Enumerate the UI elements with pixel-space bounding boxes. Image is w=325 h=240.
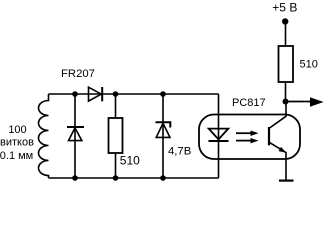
svg-text:510: 510 [120,154,140,168]
resistor R1 510 [109,118,123,153]
wire branch VD1 vertical [162,94,164,178]
label 100 витков 0.1 мм [0,124,34,162]
light arrow upper [236,132,251,134]
zener VD1 4,7В [156,122,171,137]
output arrow [310,97,324,107]
node top R1 [113,91,119,97]
node bottom VD1 [160,175,166,181]
wire top rail [49,93,219,95]
node collector junction [283,99,289,105]
node bottom D2 [72,175,78,181]
phototransistor Q1 base bar [268,127,270,145]
diode FR207 [89,87,103,101]
wire branch D2 vertical [74,94,76,178]
wire +5V to R2 [285,22,287,47]
Q1 emitter [269,142,286,180]
wire bottom rail [49,177,219,179]
svg-text:4,7В: 4,7В [168,145,191,157]
svg-text:FR207: FR207 [61,68,95,80]
svg-text:100: 100 [8,124,26,136]
inductor L1 100 витков 0.1 мм [39,94,49,178]
optocoupler U1 PC817 body [199,115,300,160]
node top VD1 [160,91,166,97]
+5 В terminal [282,18,288,24]
wire R2 to node [285,82,287,101]
light arrow lower [236,140,251,142]
resistor R2 510 [279,46,294,82]
svg-text:PC817: PC817 [232,97,266,109]
Q1 collector [269,101,286,128]
wire LED input vertical [218,94,220,178]
LED inside U1 [209,129,229,141]
wire output [286,101,312,103]
svg-text:витков: витков [0,137,34,149]
svg-text:0.1 мм: 0.1 мм [0,150,33,162]
svg-text:+5 В: +5 В [272,1,297,15]
wire branch R1 vertical [115,94,117,178]
svg-text:510: 510 [300,59,318,71]
Q1 emitter arrowhead [279,147,287,153]
node bottom R1 [113,175,119,181]
ground [279,180,294,182]
node top D2 [72,91,78,97]
diode D2 [67,127,84,141]
